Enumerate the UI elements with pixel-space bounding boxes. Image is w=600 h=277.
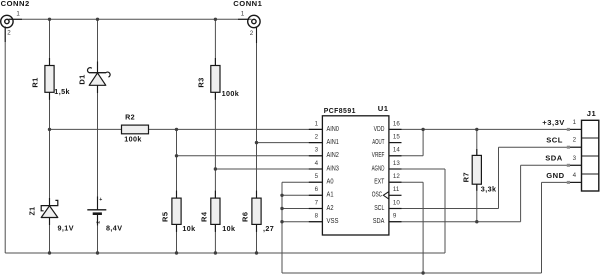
svg-text:D1: D1 (78, 74, 87, 84)
resistor R3 100k (196, 66, 239, 98)
battery 8,4V (87, 197, 122, 233)
resistor R7 3,3k (461, 155, 496, 193)
wire bottom rail (battery negative net) (5, 252, 445, 254)
wire VREF tie to VDD (389, 155, 423, 157)
U1 pin stubs right pins 16-9 (389, 129, 402, 221)
svg-text:1: 1 (16, 11, 20, 18)
svg-text:8,4V: 8,4V (106, 224, 122, 233)
wire ground return bottom (282, 272, 542, 274)
wire top rail net from CONN2 pin1 to CONN1 pin1 (7, 18, 252, 20)
J1 net labels and pin numbers (542, 118, 576, 180)
svg-text:A2: A2 (327, 203, 334, 212)
resistor R5 10k (161, 198, 196, 233)
svg-text:CONN2: CONN2 (1, 0, 30, 8)
svg-text:VREF: VREF (372, 150, 385, 159)
wire R1/Z1 column (49, 19, 51, 65)
svg-text:4: 4 (573, 172, 577, 179)
svg-text:2: 2 (7, 30, 11, 37)
svg-text:AGND: AGND (372, 163, 385, 172)
svg-text:5: 5 (315, 173, 319, 180)
svg-text:14: 14 (393, 147, 400, 154)
wire AIN0 row through R2 to U1 pin 1 (50, 128, 122, 130)
J1 pin connection squares (567, 128, 570, 184)
zener diode Z1 9,1V (28, 200, 74, 232)
svg-text:3: 3 (573, 155, 577, 162)
wire R5 column (176, 129, 178, 198)
svg-text:SDA: SDA (373, 216, 385, 225)
svg-text:1: 1 (315, 120, 319, 127)
wire AIN1 row to U1 pin 2 (257, 142, 323, 144)
svg-text:SDA: SDA (545, 154, 563, 163)
wire R7 column (476, 129, 478, 155)
svg-text:VSS: VSS (327, 216, 339, 225)
svg-text:R6: R6 (241, 212, 250, 222)
svg-text:11: 11 (393, 186, 400, 193)
svg-text:J1: J1 (587, 109, 597, 118)
svg-text:2: 2 (315, 134, 319, 141)
wire AIN2 row to U1 pin 3 (177, 155, 323, 157)
connector CONN2 (1, 0, 30, 37)
svg-text:1,5k: 1,5k (54, 87, 70, 96)
svg-text:R2: R2 (125, 113, 135, 122)
svg-text:SCL: SCL (546, 136, 563, 145)
svg-text:GND: GND (546, 171, 564, 180)
diode D1 (schottky, cathode up) (78, 68, 111, 86)
svg-text:8: 8 (315, 213, 319, 220)
wire A0/A1/A2/VSS rows and common column (282, 181, 322, 183)
svg-text:Z1: Z1 (28, 207, 37, 216)
svg-text:12: 12 (393, 173, 400, 180)
op IC U1 PCF8591 body (322, 104, 389, 235)
resistor R6 ,27 (241, 198, 275, 233)
CONN2 pin stubs (9, 18, 22, 20)
svg-text:15: 15 (393, 134, 400, 141)
svg-text:6: 6 (315, 186, 319, 193)
svg-text:9,1V: 9,1V (58, 224, 74, 233)
svg-text:10k: 10k (182, 224, 195, 233)
connector CONN1 (233, 0, 262, 37)
svg-text:+: + (99, 197, 102, 203)
svg-text:2: 2 (250, 30, 254, 37)
U1 left pin names and numbers (315, 120, 339, 225)
svg-text:PCF8591: PCF8591 (324, 106, 356, 115)
svg-text:CONN1: CONN1 (233, 0, 262, 8)
svg-text:AIN3: AIN3 (327, 163, 339, 172)
svg-text:R4: R4 (200, 212, 209, 222)
wire SCL net U1 pin10 to J1 pin2 (389, 208, 499, 210)
wire AIN3 row to U1 pin 4 (215, 168, 322, 170)
resistor R4 10k (200, 198, 236, 233)
svg-text:7: 7 (315, 199, 319, 206)
wire CONN2 pin2 drop left edge (4, 27, 6, 254)
svg-text:,27: ,27 (263, 224, 274, 233)
svg-text:R1: R1 (31, 77, 40, 87)
svg-text:1: 1 (241, 10, 245, 17)
svg-text:VDD: VDD (374, 124, 385, 133)
svg-text:R5: R5 (161, 212, 170, 222)
wire EXT down to ground return (389, 181, 423, 183)
svg-text:10k: 10k (222, 224, 235, 233)
svg-text:AIN1: AIN1 (327, 137, 339, 146)
svg-text:EXT: EXT (374, 177, 384, 186)
svg-text:100k: 100k (124, 135, 142, 144)
resistor R2 100k (horizontal) (122, 113, 149, 144)
svg-text:1: 1 (573, 119, 577, 126)
wire R3/R4 column (214, 19, 216, 65)
resistor R1 1,5k (31, 66, 70, 97)
svg-text:9: 9 (393, 213, 397, 220)
U1 pin stubs left pins 1-8 (309, 129, 322, 221)
svg-text:AIN2: AIN2 (327, 150, 339, 159)
U1 OSC clock marker triangle (383, 192, 388, 199)
svg-text:100k: 100k (222, 89, 240, 98)
wire GND net J1 pin4 to ground return (542, 181, 582, 183)
svg-text:R7: R7 (461, 172, 470, 182)
svg-text:A0: A0 (327, 177, 334, 186)
wire CONN1 pin2 drop / R6 column (256, 27, 258, 198)
svg-text:16: 16 (393, 120, 400, 127)
svg-text:4: 4 (315, 160, 319, 167)
svg-text:2: 2 (96, 221, 102, 224)
J1 pin stubs (568, 129, 581, 182)
svg-text:U1: U1 (378, 104, 389, 113)
svg-text:10: 10 (393, 199, 400, 206)
svg-text:R3: R3 (196, 77, 205, 87)
resistor and diode lead stubs (50, 58, 477, 232)
connector J1 body (582, 109, 599, 191)
svg-text:A1: A1 (327, 190, 334, 199)
wire SDA net U1 pin9 to J1 pin3 (389, 221, 521, 223)
svg-text:OSC: OSC (372, 190, 383, 199)
svg-text:SCL: SCL (374, 203, 384, 212)
svg-text:+3,3V: +3,3V (542, 118, 565, 127)
svg-text:AIN0: AIN0 (327, 124, 339, 133)
svg-text:3,3k: 3,3k (481, 185, 497, 194)
wire AGND to bottom rail (389, 168, 445, 170)
svg-text:13: 13 (393, 160, 400, 167)
CONN1 pin stubs (238, 18, 249, 20)
U1 right pin names and numbers (372, 120, 401, 225)
svg-text:AOUT: AOUT (372, 137, 384, 146)
wire D1/battery column (+8,4V net) (97, 19, 99, 72)
svg-text:3: 3 (315, 147, 319, 154)
svg-text:2: 2 (573, 137, 577, 144)
wire +3,3V row from U1 pin16 VDD to J1 pin1 (389, 128, 582, 130)
